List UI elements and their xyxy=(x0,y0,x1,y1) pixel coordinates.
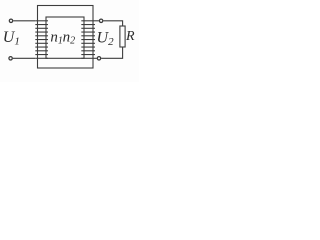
svg-text:R: R xyxy=(125,29,135,44)
